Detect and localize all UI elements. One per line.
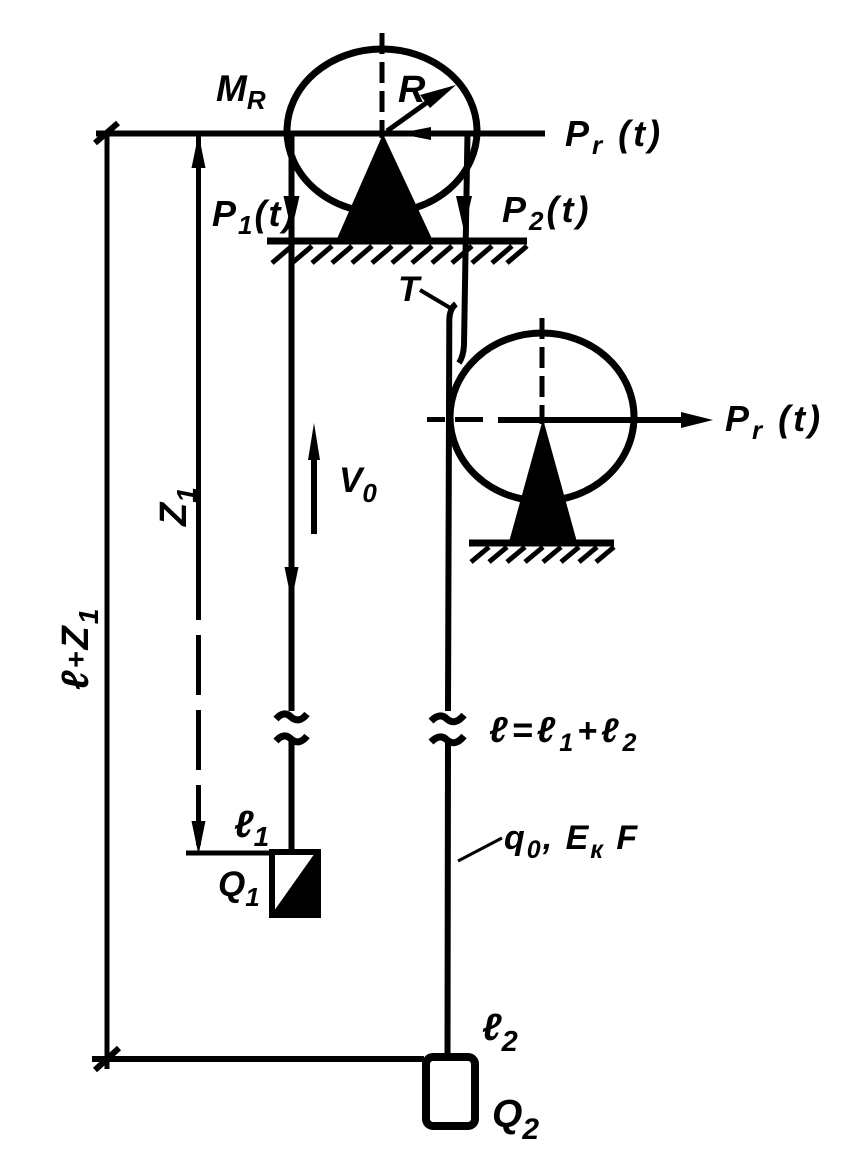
label Q1: [218, 865, 260, 912]
leader line from q0 label to rope: [458, 838, 502, 861]
pulley top (drum): [287, 49, 477, 213]
direction arrowhead on left rope (down): [285, 567, 299, 601]
load Q1 (block with diagonal half fill): [272, 852, 318, 915]
label MR: [216, 68, 266, 115]
label T: [398, 270, 422, 309]
force P1(t) arrowhead on left rope: [284, 196, 300, 231]
label R: [398, 69, 426, 111]
rope break mark right (lower squiggle): [431, 736, 464, 743]
support triangle top pulley: [336, 134, 433, 241]
dimension line l+Z1 (outer vertical): [105, 131, 110, 1069]
load Q2 (open block): [426, 1057, 475, 1126]
force P2(t) arrowhead on right rope: [456, 196, 472, 231]
ground hatching top: [272, 246, 527, 263]
label Pr(t) top: [565, 113, 663, 160]
rope left lower segment: [289, 740, 295, 853]
svg-text:T: T: [398, 270, 422, 309]
ground line top: [267, 238, 527, 245]
tick bottom-left corner: [95, 1048, 119, 1070]
svg-text:Pr (t): Pr (t): [725, 398, 823, 445]
centerline pulley 2 vertical (dash): [540, 318, 545, 424]
dimension line l1 (horizontal): [186, 851, 272, 856]
velocity arrow V0: [308, 423, 320, 534]
force Pr(t) arrowhead pulley 2 (pointing right): [681, 412, 713, 428]
rope break mark left (lower squiggle): [276, 736, 307, 742]
rope right long segment to load: [448, 304, 457, 1056]
axis line pulley 2 horizontal with dash: [427, 417, 684, 423]
label l+Z1 (rotated): [55, 607, 104, 690]
rope break mark left (upper squiggle): [276, 714, 307, 720]
force Pr(t) arrowhead at top pulley center (pointing left): [398, 127, 431, 140]
pulley 2 (lower right drum): [450, 333, 634, 501]
axis line top horizontal: [96, 131, 545, 137]
svg-text:P2(t): P2(t): [502, 189, 591, 236]
ground line pulley 2: [469, 540, 614, 547]
label Z1 (rotated): [153, 487, 202, 527]
svg-text:R: R: [398, 69, 426, 111]
label Q2: [492, 1093, 539, 1146]
dimension line Z1 (vertical, dashed lower part): [192, 133, 206, 855]
centerline top pulley (dash-dot): [380, 33, 385, 138]
rope break mark right (upper squiggle): [431, 715, 464, 722]
label Pr(t) pulley 2: [725, 398, 823, 445]
rope left upper segment: [289, 133, 295, 711]
label q0,EkF: [504, 819, 639, 864]
label V0: [339, 461, 377, 508]
bottom dimension line: [92, 1056, 424, 1062]
support triangle pulley 2: [509, 419, 577, 542]
label l = l1 + l2: [489, 709, 640, 757]
rope right segment from top pulley: [459, 133, 468, 363]
svg-text:Pr (t): Pr (t): [565, 113, 663, 160]
label P1(t): [212, 193, 296, 240]
svg-text:P1(t): P1(t): [212, 193, 296, 240]
ground hatching pulley 2: [471, 547, 614, 562]
leader line from T to rope: [420, 290, 452, 309]
tick top-left corner: [95, 123, 118, 143]
label l2: [482, 1007, 518, 1058]
label P2(t): [502, 189, 591, 236]
label l1: [234, 804, 269, 852]
radius arrow R: [387, 85, 456, 131]
